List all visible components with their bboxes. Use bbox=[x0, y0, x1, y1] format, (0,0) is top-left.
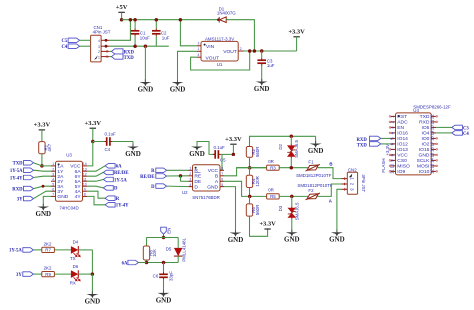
svg-text:20: 20 bbox=[430, 125, 435, 130]
svg-text:R: R bbox=[151, 169, 155, 174]
ground G3 under C3 bbox=[261, 65, 263, 82]
wire VIN riser bbox=[180, 20, 196, 46]
svg-text:11: 11 bbox=[83, 178, 87, 182]
svg-text:6: 6 bbox=[52, 188, 54, 192]
svg-text:R: R bbox=[116, 197, 120, 202]
svg-text:4: 4 bbox=[52, 178, 54, 182]
svg-text:C4: C4 bbox=[61, 45, 67, 50]
net flag RXD top bbox=[109, 50, 112, 52]
svg-text:IO13: IO13 bbox=[397, 147, 408, 153]
pin CN2-1 bbox=[342, 178, 348, 180]
capacitor C3 bbox=[261, 51, 263, 58]
svg-text:TXD: TXD bbox=[357, 143, 368, 148]
svg-text:3: 3 bbox=[98, 45, 100, 49]
svg-text:R3: R3 bbox=[270, 165, 276, 170]
junction C2 rail bbox=[155, 18, 159, 22]
wire gnd bus under C1 C2 bbox=[109, 45, 169, 47]
junction D2 top bbox=[290, 135, 294, 139]
pins U4 right bbox=[431, 115, 436, 117]
svg-text:RXD: RXD bbox=[12, 187, 23, 192]
pin U1 VOUT right bbox=[238, 50, 243, 52]
svg-text:D4: D4 bbox=[73, 240, 79, 245]
svg-text:2: 2 bbox=[189, 172, 191, 176]
pin CN2-2 bbox=[342, 183, 348, 185]
net flag 1Y-4Y right of U3 bbox=[87, 196, 105, 204]
svg-text:GND: GND bbox=[308, 147, 324, 155]
svg-text:1Y-5A: 1Y-5A bbox=[10, 169, 23, 174]
pin CN1-2 bbox=[101, 50, 109, 52]
wire VCC riser U2 bbox=[220, 154, 222, 170]
svg-text:GND: GND bbox=[284, 236, 300, 244]
svg-text:TXD: TXD bbox=[124, 56, 135, 61]
junction R6 top bbox=[248, 195, 252, 199]
svg-text:13: 13 bbox=[83, 168, 87, 172]
ground G8 top right bbox=[315, 136, 317, 143]
svg-text:13: 13 bbox=[430, 163, 435, 168]
svg-text:D: D bbox=[114, 187, 118, 192]
wire VCC riser U3 bbox=[87, 142, 93, 166]
wire A to CN2 bbox=[318, 184, 342, 196]
ground G5 under U3 bbox=[42, 204, 44, 207]
ground G2 under U1 bbox=[177, 79, 179, 82]
svg-text:19: 19 bbox=[430, 130, 435, 135]
junction D3 top bbox=[290, 195, 294, 199]
net flag 6A right of U3 bbox=[87, 166, 105, 171]
svg-text:IO2: IO2 bbox=[422, 142, 430, 148]
wire D1 to 3.3V rail bbox=[226, 20, 254, 51]
svg-text:15: 15 bbox=[430, 152, 435, 157]
capacitor C4 0.1uF bbox=[93, 141, 104, 143]
svg-text:10uF: 10uF bbox=[140, 35, 150, 40]
svg-text:16: 16 bbox=[430, 147, 435, 152]
wire CN2 pin3 to ground bbox=[337, 189, 342, 232]
svg-text:GND: GND bbox=[85, 297, 101, 305]
svg-text:EN: EN bbox=[397, 125, 404, 131]
svg-text:0.1uF: 0.1uF bbox=[105, 132, 117, 137]
svg-text:GND: GND bbox=[57, 194, 68, 200]
svg-text:D6: D6 bbox=[73, 264, 79, 269]
svg-text:RE: RE bbox=[194, 174, 202, 180]
svg-text:11: 11 bbox=[389, 169, 394, 174]
svg-text:GND: GND bbox=[156, 296, 172, 304]
svg-text:U1: U1 bbox=[217, 62, 223, 67]
resistor R1 bbox=[39, 142, 45, 154]
svg-text:3Pin JST: 3Pin JST bbox=[361, 174, 366, 192]
svg-text:U3: U3 bbox=[66, 153, 72, 158]
svg-text:RXD: RXD bbox=[357, 138, 368, 143]
svg-text:1A: 1A bbox=[57, 164, 64, 170]
wire C4 to ground bbox=[132, 142, 134, 147]
junction C5 +3.3V bbox=[232, 153, 235, 156]
ground G7 under U2 bbox=[235, 230, 237, 233]
svg-text:VIN: VIN bbox=[206, 44, 215, 50]
svg-text:+3.3V: +3.3V bbox=[85, 120, 102, 127]
svg-text:4K7: 4K7 bbox=[47, 143, 52, 151]
pin U1 VIN bbox=[197, 45, 201, 47]
svg-text:74HC04D: 74HC04D bbox=[59, 205, 78, 210]
pins U3 left bbox=[51, 165, 56, 167]
LED D6 bbox=[71, 270, 78, 278]
wire R8 D5 loop top bbox=[147, 237, 179, 239]
pin CN1-4 bbox=[101, 39, 109, 41]
svg-text:+5V: +5V bbox=[116, 4, 128, 11]
net flag RE/DE right of U3 bbox=[87, 172, 103, 176]
pins U3 right bbox=[83, 165, 88, 167]
svg-text:R9: R9 bbox=[45, 272, 51, 277]
svg-text:CN2: CN2 bbox=[348, 168, 357, 173]
svg-text:TXD: TXD bbox=[420, 114, 430, 120]
capacitor C5 0.1uF bbox=[213, 153, 215, 155]
pin CN2-3 bbox=[342, 188, 348, 190]
svg-text:6A: 6A bbox=[116, 165, 122, 170]
svg-text:SMD1812P010TF: SMD1812P010TF bbox=[296, 173, 331, 178]
wire B line left bbox=[237, 167, 267, 169]
svg-text:120R: 120R bbox=[255, 176, 260, 187]
capacitor C1 bbox=[134, 20, 136, 29]
svg-text:IO14: IO14 bbox=[397, 136, 408, 142]
svg-text:GND: GND bbox=[170, 85, 186, 93]
svg-text:F1: F1 bbox=[308, 160, 314, 165]
junction C4 node bbox=[91, 140, 95, 144]
pin CN1-1 bbox=[101, 56, 109, 58]
svg-text:RXD: RXD bbox=[419, 120, 430, 126]
svg-text:1: 1 bbox=[52, 162, 54, 166]
svg-text:F2: F2 bbox=[308, 188, 314, 193]
svg-text:SMD1812P010TF: SMD1812P010TF bbox=[297, 183, 332, 188]
net flag EN down bbox=[161, 227, 167, 234]
diode D5 PMLL4148L bbox=[177, 238, 179, 248]
svg-text:RE/DE: RE/DE bbox=[140, 175, 155, 180]
svg-text:1: 1 bbox=[197, 47, 199, 51]
svg-text:SN75176BDR: SN75176BDR bbox=[192, 195, 220, 200]
wire +5V rail bbox=[122, 19, 219, 21]
wire B to CN2 bbox=[318, 168, 342, 179]
svg-text:D2: D2 bbox=[278, 143, 283, 149]
svg-text:GND: GND bbox=[419, 153, 430, 159]
svg-text:+3.3V: +3.3V bbox=[225, 136, 242, 143]
svg-text:MISO: MISO bbox=[397, 164, 410, 170]
svg-text:560R: 560R bbox=[255, 205, 260, 216]
junction loop bbox=[248, 49, 252, 53]
svg-text:AMS1117-3.3V: AMS1117-3.3V bbox=[205, 36, 234, 41]
svg-text:D: D bbox=[151, 185, 155, 190]
wire U4 IO4 to C4 flag bbox=[436, 132, 452, 134]
svg-text:12: 12 bbox=[430, 169, 435, 174]
junction 6A node bbox=[145, 261, 149, 265]
svg-text:+3.3V: +3.3V bbox=[259, 220, 276, 227]
svg-text:GND: GND bbox=[189, 150, 205, 158]
svg-text:2: 2 bbox=[52, 168, 54, 172]
svg-text:SCLK: SCLK bbox=[417, 158, 431, 164]
IC U3 74HC04D body bbox=[56, 161, 83, 201]
svg-text:R7: R7 bbox=[45, 248, 51, 253]
junction C1 bottom bbox=[133, 44, 137, 48]
ground G12 under C6 bbox=[163, 290, 165, 293]
svg-text:R5: R5 bbox=[270, 194, 276, 199]
wire 3.3V rail bbox=[244, 50, 297, 52]
module U4 ESP8266 body bbox=[396, 113, 432, 175]
svg-text:2K2: 2K2 bbox=[44, 241, 52, 246]
svg-text:6A: 6A bbox=[122, 261, 128, 266]
svg-text:10K: 10K bbox=[152, 249, 157, 257]
svg-text:GND: GND bbox=[36, 210, 52, 218]
svg-text:GND: GND bbox=[228, 236, 244, 244]
ground G10 under CN2 bbox=[336, 230, 338, 233]
connector CN1 body bbox=[91, 35, 102, 62]
svg-text:SMAJ6.5: SMAJ6.5 bbox=[294, 140, 299, 158]
svg-text:8: 8 bbox=[221, 167, 223, 171]
svg-text:8: 8 bbox=[84, 193, 86, 197]
pins U2 right bbox=[220, 169, 224, 171]
svg-text:7: 7 bbox=[221, 172, 223, 176]
svg-text:EN: EN bbox=[166, 228, 171, 234]
svg-text:14: 14 bbox=[83, 162, 87, 166]
junction D2 bottom bbox=[290, 166, 294, 170]
ground G6 left of C5 bbox=[196, 144, 198, 147]
wire VOUT loop bbox=[191, 51, 250, 70]
resistor R7 bbox=[42, 247, 55, 252]
svg-text:IO4: IO4 bbox=[422, 131, 430, 137]
svg-text:0.1uF: 0.1uF bbox=[214, 145, 226, 150]
svg-text:SMAJ6.5: SMAJ6.5 bbox=[294, 202, 299, 220]
svg-text:D: D bbox=[194, 184, 198, 190]
wire U2 B out bbox=[224, 168, 267, 176]
svg-text:1uF: 1uF bbox=[267, 63, 275, 68]
svg-text:RXD: RXD bbox=[124, 51, 135, 56]
net flag 1Y-5A right of U3 bbox=[87, 180, 103, 182]
net flag R right of U3 bbox=[87, 191, 105, 198]
svg-text:C6: C6 bbox=[153, 273, 159, 278]
svg-text:IO10: IO10 bbox=[419, 169, 430, 175]
wire R1 to TXD node bbox=[41, 154, 43, 166]
svg-text:C3: C3 bbox=[463, 126, 469, 131]
svg-text:3: 3 bbox=[197, 42, 199, 46]
wire U4 IO5 to C3 flag bbox=[436, 126, 452, 128]
svg-text:14: 14 bbox=[430, 158, 435, 163]
svg-text:D3: D3 bbox=[278, 205, 283, 211]
svg-text:C5: C5 bbox=[61, 39, 67, 44]
wire U2 A out bbox=[224, 181, 267, 196]
svg-text:IO5: IO5 bbox=[422, 125, 430, 131]
net flag TXD top bbox=[109, 56, 112, 58]
svg-text:IO15: IO15 bbox=[419, 147, 430, 153]
svg-text:MOSI: MOSI bbox=[417, 164, 430, 170]
svg-text:VOUT: VOUT bbox=[206, 55, 220, 61]
junction C6 node bbox=[162, 261, 166, 265]
wire D4 to gnd bus bbox=[78, 249, 92, 251]
svg-text:7: 7 bbox=[52, 193, 54, 197]
junction EN node bbox=[162, 236, 166, 240]
svg-text:2K2: 2K2 bbox=[44, 266, 52, 271]
ground G11 under LEDs bbox=[91, 274, 93, 294]
svg-text:U2: U2 bbox=[182, 190, 188, 195]
ground G9 under D3 bbox=[291, 230, 293, 233]
diode D1 1N4007G bbox=[218, 17, 220, 23]
pin U1 VOUT left bbox=[197, 56, 201, 58]
resistor R2 bbox=[250, 136, 316, 146]
svg-text:TX: TX bbox=[70, 256, 76, 261]
svg-text:3: 3 bbox=[52, 173, 54, 177]
svg-text:TXD: TXD bbox=[13, 162, 24, 167]
svg-text:0R: 0R bbox=[268, 188, 274, 193]
svg-text:10: 10 bbox=[389, 163, 394, 168]
svg-text:DE: DE bbox=[194, 179, 202, 185]
diode D3 SMAJ6.5 TVS bbox=[291, 196, 293, 206]
svg-text:1Y-4Y: 1Y-4Y bbox=[10, 176, 23, 181]
svg-text:9: 9 bbox=[84, 188, 86, 192]
svg-text:4A: 4A bbox=[75, 189, 82, 195]
IC U2 SN75176BDR body bbox=[193, 165, 221, 191]
regulator U1 AMS1117-3.3 bbox=[201, 41, 238, 61]
svg-text:2: 2 bbox=[98, 50, 100, 54]
svg-text:10: 10 bbox=[83, 183, 87, 187]
svg-text:RST: RST bbox=[397, 114, 407, 120]
svg-text:IO16: IO16 bbox=[397, 131, 408, 137]
svg-text:CS0: CS0 bbox=[397, 158, 407, 164]
svg-text:5: 5 bbox=[52, 183, 54, 187]
svg-text:1: 1 bbox=[98, 55, 100, 59]
svg-text:FLASH: FLASH bbox=[381, 158, 386, 172]
svg-text:5: 5 bbox=[221, 183, 223, 187]
svg-text:GND: GND bbox=[254, 85, 270, 93]
svg-text:1Y-5A: 1Y-5A bbox=[9, 249, 22, 254]
svg-text:GND: GND bbox=[125, 150, 141, 158]
pins U4 left bbox=[391, 115, 396, 117]
svg-text:1: 1 bbox=[189, 167, 191, 171]
svg-text:VCC: VCC bbox=[208, 168, 219, 174]
junction D1 drop bbox=[253, 49, 257, 53]
svg-text:0R: 0R bbox=[268, 159, 274, 164]
svg-text:4Pin JST: 4Pin JST bbox=[93, 29, 111, 34]
svg-text:18: 18 bbox=[430, 136, 435, 141]
svg-text:1uF: 1uF bbox=[162, 35, 170, 40]
connector CN2 body bbox=[347, 172, 357, 194]
svg-text:12: 12 bbox=[83, 173, 87, 177]
svg-text:IO12: IO12 bbox=[397, 142, 408, 148]
svg-text:IO0: IO0 bbox=[422, 136, 430, 142]
resistor R9 bbox=[42, 272, 55, 277]
junction +5V rail bbox=[120, 18, 124, 22]
svg-text:C5: C5 bbox=[220, 157, 226, 162]
junction VIN rail bbox=[179, 18, 183, 22]
svg-text:C4: C4 bbox=[463, 132, 469, 137]
net flag D right of U3 bbox=[87, 186, 103, 188]
ground G1 under capacitors bbox=[144, 46, 146, 82]
pins U2 left bbox=[189, 169, 193, 171]
svg-text:U4: U4 bbox=[413, 108, 419, 113]
svg-text:4: 4 bbox=[189, 183, 191, 187]
svg-text:C4: C4 bbox=[105, 147, 111, 152]
svg-text:GND: GND bbox=[329, 236, 345, 244]
svg-text:17: 17 bbox=[430, 141, 435, 146]
svg-text:33pF: 33pF bbox=[168, 271, 173, 281]
junction riser-rail bbox=[129, 18, 133, 22]
svg-text:B: B bbox=[329, 161, 332, 166]
wire A line mid bbox=[279, 195, 308, 197]
svg-text:3Y: 3Y bbox=[16, 273, 22, 278]
resistor R4 bbox=[246, 175, 252, 187]
svg-text:GND: GND bbox=[138, 85, 154, 93]
wire B line mid bbox=[279, 167, 308, 169]
resistor R6 bbox=[246, 204, 252, 216]
svg-text:+3.3V: +3.3V bbox=[385, 144, 390, 156]
svg-text:6: 6 bbox=[221, 178, 223, 182]
svg-text:+3.3V: +3.3V bbox=[34, 122, 51, 129]
capacitor C2 bbox=[155, 20, 157, 29]
junction R4 top bbox=[248, 166, 252, 170]
svg-text:1Y-4Y: 1Y-4Y bbox=[116, 204, 129, 209]
svg-text:R: R bbox=[194, 168, 198, 174]
resistor R8 bbox=[146, 238, 148, 247]
junction gnd drop bbox=[144, 44, 148, 48]
svg-text:D5: D5 bbox=[166, 246, 172, 251]
svg-text:B: B bbox=[215, 174, 218, 180]
pin U1 GND bbox=[197, 50, 201, 52]
svg-text:4: 4 bbox=[197, 53, 199, 57]
svg-text:VCC: VCC bbox=[397, 153, 408, 159]
svg-text:4Y: 4Y bbox=[75, 194, 82, 200]
junction C3 tap bbox=[260, 49, 264, 53]
svg-text:RE/DE: RE/DE bbox=[114, 171, 129, 176]
svg-text:GND: GND bbox=[207, 184, 218, 190]
svg-text:1N4007G: 1N4007G bbox=[217, 10, 236, 15]
svg-text:ADC: ADC bbox=[397, 120, 408, 126]
svg-text:3Y: 3Y bbox=[17, 197, 23, 202]
wire U1 GND to ground bbox=[178, 51, 197, 79]
capacitor C6 bbox=[163, 263, 165, 272]
svg-text:VOUT: VOUT bbox=[223, 49, 237, 55]
svg-text:3Y: 3Y bbox=[57, 189, 64, 195]
LED D4 bbox=[71, 246, 78, 254]
pin CN1-3 bbox=[101, 45, 109, 47]
wire CN1 pin4 riser bbox=[109, 20, 130, 41]
ground G4 right of C4 bbox=[132, 144, 134, 147]
svg-text:IO9: IO9 bbox=[397, 169, 405, 175]
svg-text:PMLL4148L: PMLL4148L bbox=[182, 237, 187, 261]
svg-text:+3.3V: +3.3V bbox=[288, 28, 305, 35]
svg-text:SMDESP8266-12F: SMDESP8266-12F bbox=[413, 104, 451, 109]
svg-text:1Y-5A: 1Y-5A bbox=[114, 178, 127, 183]
svg-text:22: 22 bbox=[430, 114, 435, 119]
svg-text:560R: 560R bbox=[255, 147, 260, 158]
svg-text:RX: RX bbox=[70, 280, 76, 285]
diode D2 SMAJ6.5 TVS bbox=[290, 136, 292, 144]
svg-text:4: 4 bbox=[98, 39, 100, 43]
wire R8 D5 loop bottom bbox=[147, 262, 179, 264]
wire U3 GND pin bbox=[43, 196, 51, 206]
junction C1 rail bbox=[133, 18, 137, 22]
svg-text:VCC: VCC bbox=[70, 164, 81, 170]
svg-text:2: 2 bbox=[240, 47, 242, 51]
svg-text:21: 21 bbox=[430, 119, 435, 124]
wire D6 junction bbox=[78, 273, 92, 275]
junction TXD node bbox=[40, 164, 44, 168]
wire U2 GND down bbox=[224, 187, 236, 233]
svg-text:3: 3 bbox=[189, 178, 191, 182]
